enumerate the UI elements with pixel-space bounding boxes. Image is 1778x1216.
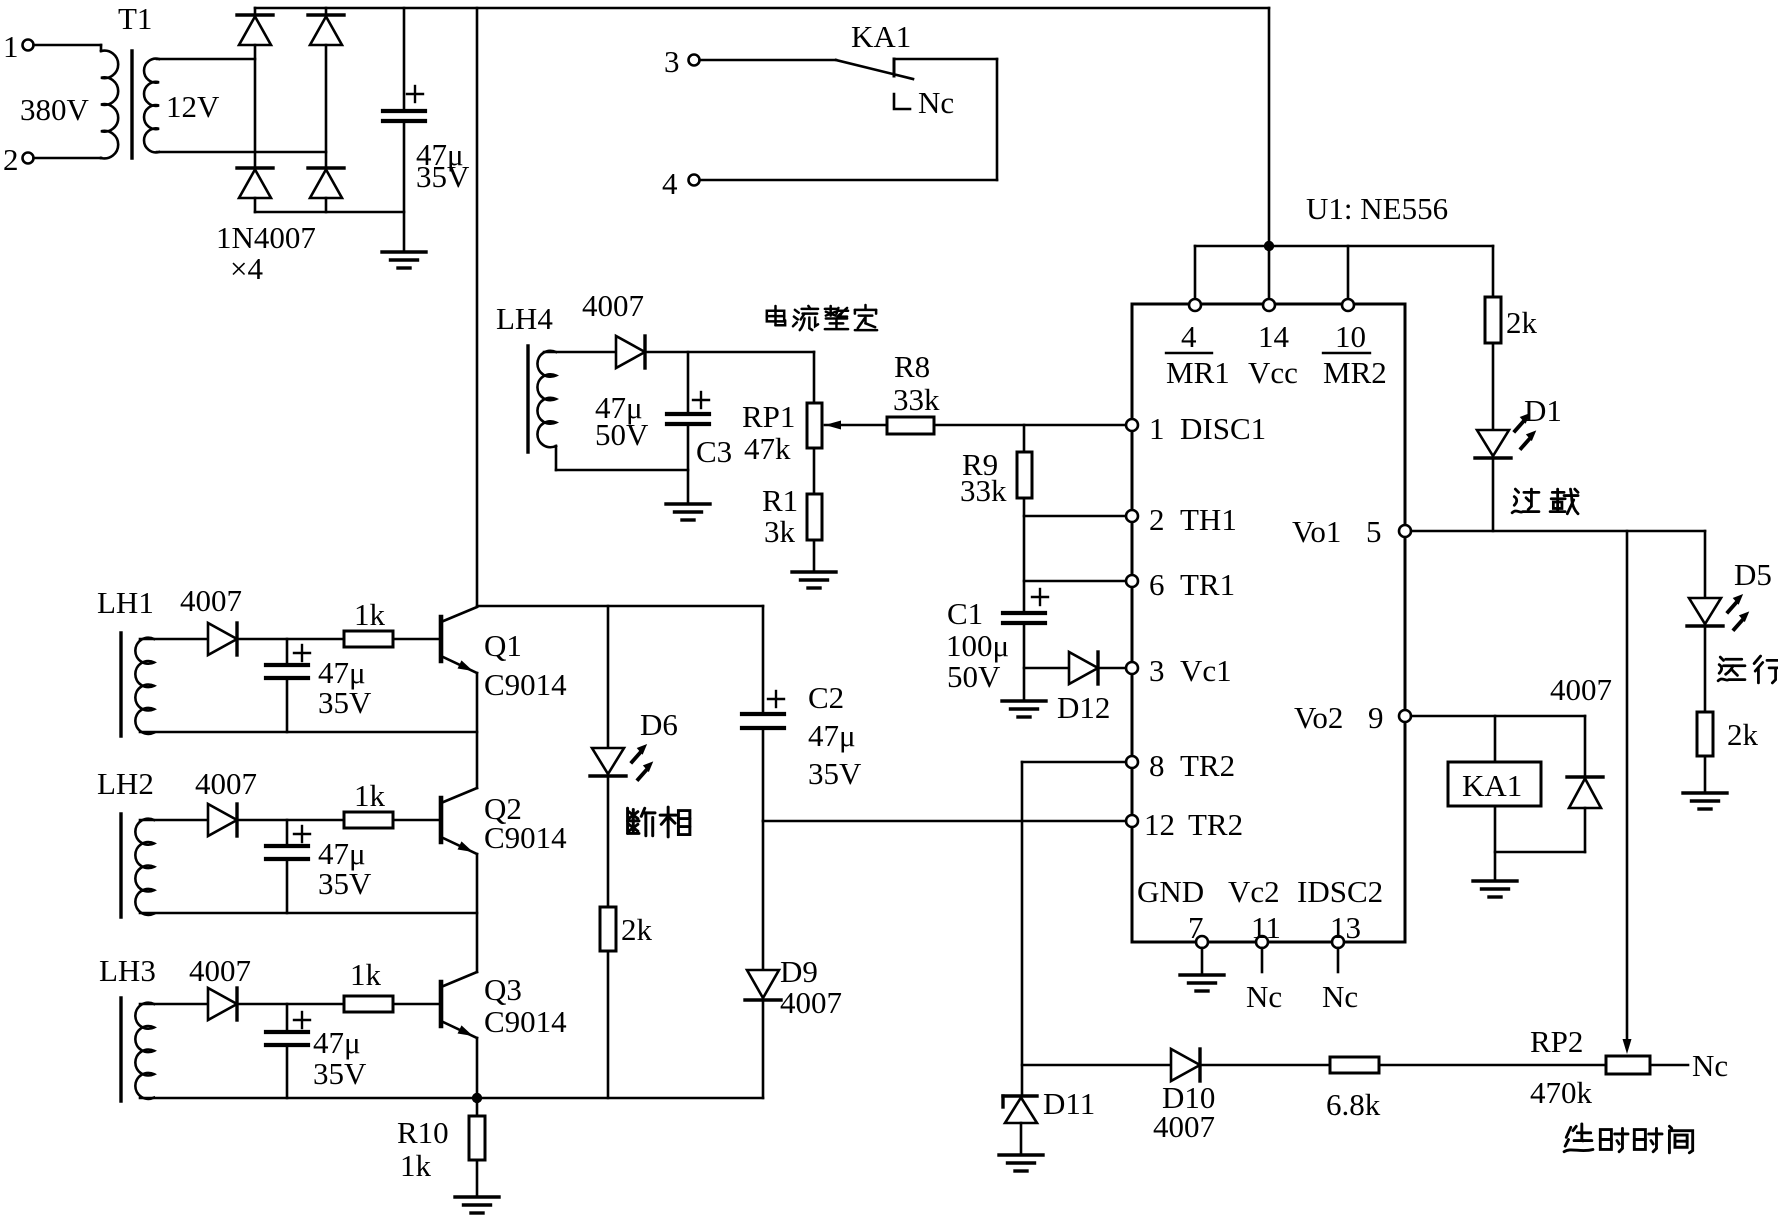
wire LH4 top to diode: [544, 351, 616, 354]
resistor 6.8k: [1326, 1057, 1381, 1122]
svg-text:2k: 2k: [1727, 717, 1759, 752]
wire R9 to C1: [1023, 498, 1026, 613]
wire RP1 wiper to R8: [825, 424, 887, 427]
svg-text:47μ: 47μ: [808, 718, 856, 753]
pin 4 MR1 stub: [1194, 246, 1197, 299]
svg-text:8: 8: [1149, 748, 1165, 783]
svg-text:6: 6: [1149, 567, 1165, 602]
svg-text:LH2: LH2: [97, 766, 154, 801]
diode D10 4007: [1153, 1049, 1215, 1144]
label 延时时间: [1564, 1124, 1693, 1153]
diode D9 4007: [745, 954, 842, 1020]
LED D6: [590, 707, 678, 779]
resistor R8 33k: [887, 349, 940, 434]
svg-text:Nc: Nc: [1692, 1048, 1728, 1083]
svg-text:9: 9: [1368, 700, 1384, 735]
wire 2k to D1: [1492, 343, 1495, 430]
svg-text:12V: 12V: [166, 89, 220, 124]
resistor 1k (LH3): [344, 957, 393, 1012]
wire contact to right: [894, 58, 997, 61]
transistor Q1 C9014: [441, 607, 567, 702]
label 380V: [20, 92, 90, 127]
svg-text:3: 3: [664, 44, 680, 79]
wire contact right vertical: [996, 59, 999, 180]
relay contact hook Nc: [894, 94, 910, 109]
current transformer LH3 winding: [135, 1003, 154, 1099]
wire bridge right column middle: [325, 45, 328, 168]
wire KA1 coil bottom: [1494, 806, 1497, 881]
svg-text:TR1: TR1: [1180, 567, 1235, 602]
wire to terminal 4: [700, 179, 998, 182]
svg-text:Q1: Q1: [484, 628, 522, 663]
wire RP2 to Nc: [1650, 1064, 1688, 1067]
wire collector rail: [477, 605, 763, 608]
pin 13 IDSC2 circle: [1297, 874, 1383, 948]
capacitor 47u 35V (LH1): [266, 639, 310, 732]
svg-text:C1: C1: [947, 596, 983, 631]
svg-text:R10: R10: [397, 1115, 449, 1150]
label 47u 35V: [416, 137, 470, 194]
resistor 1k (LH1): [344, 597, 393, 647]
svg-text:D11: D11: [1043, 1086, 1095, 1121]
svg-text:47k: 47k: [744, 431, 791, 466]
diode 4007 (LH2): [208, 804, 237, 836]
wire D9 to bottom rail: [762, 1000, 765, 1098]
resistor 2k (D1): [1485, 297, 1538, 343]
wire D10 to 6.8k: [1200, 1064, 1330, 1067]
label 47u 35V (LH2): [318, 836, 372, 901]
svg-text:470k: 470k: [1530, 1075, 1593, 1110]
pin 4 circle: [1189, 299, 1201, 311]
diode 4007 (KA1 flyback): [1550, 672, 1612, 852]
svg-text:RP2: RP2: [1530, 1024, 1583, 1059]
wire D11 to ground: [1020, 1123, 1023, 1155]
wire pin 8 branch: [1022, 761, 1126, 764]
wire 1k to Q3 base: [393, 1003, 439, 1006]
wire delay rail left: [1022, 1064, 1171, 1067]
capacitor C2 47u 35V: [742, 691, 784, 728]
label 12V: [166, 89, 220, 124]
svg-text:R8: R8: [894, 349, 930, 384]
wire RP2 wiper vertical: [1623, 531, 1632, 1054]
wire D12 to pin 3: [1098, 667, 1126, 670]
wire terminal1 to T1 primary: [34, 44, 102, 47]
diode D12: [1057, 652, 1110, 725]
wire bridge left column upper: [254, 8, 257, 15]
svg-text:Nc: Nc: [1322, 979, 1358, 1014]
svg-text:4007: 4007: [189, 953, 251, 988]
current transformer LH1 winding: [135, 638, 154, 734]
wire bottom rail: [477, 1097, 763, 1100]
wire pin 12 TR2 net: [763, 820, 1126, 823]
svg-text:100μ: 100μ: [946, 628, 1009, 663]
resistor 2k (D6): [600, 907, 653, 951]
resistor R9 33k: [960, 447, 1032, 508]
svg-text:D6: D6: [640, 707, 678, 742]
capacitor 47u 35V (filter): [383, 86, 425, 121]
wire Vcc rail to 2k: [1492, 246, 1495, 297]
label 47u 35V (LH1): [318, 655, 372, 720]
pin 12 circle: [1126, 807, 1243, 842]
wire LH1 diode to R: [237, 638, 344, 641]
label 4007 (LH4): [582, 288, 644, 323]
label Nc (contact): [918, 85, 954, 120]
relay contact fixed bar: [893, 59, 896, 76]
svg-text:1k: 1k: [354, 597, 386, 632]
svg-text:35V: 35V: [318, 866, 372, 901]
wire R10 top: [476, 1098, 479, 1116]
svg-text:2: 2: [1149, 502, 1165, 537]
pin 11 Vc2 circle: [1228, 874, 1281, 948]
wire top rail down to Vcc node: [1268, 8, 1271, 246]
label 47u 50V (C3): [595, 390, 649, 452]
capacitor 47u 35V (LH3): [266, 1004, 310, 1098]
ground (filter cap): [382, 252, 426, 268]
pin 9 circle Vo2: [1294, 700, 1411, 735]
svg-text:1k: 1k: [350, 957, 382, 992]
node Vcc junction: [1264, 241, 1274, 251]
transistor Q2 C9014: [441, 788, 567, 856]
wire LH3 bottom: [140, 1097, 477, 1100]
wire D12 branch: [1024, 667, 1069, 670]
zener D11: [1003, 1086, 1095, 1123]
svg-text:TH1: TH1: [1180, 502, 1237, 537]
relay coil KA1: [1448, 762, 1541, 806]
svg-text:47μ: 47μ: [313, 1025, 361, 1060]
resistor R1 3k: [762, 483, 822, 549]
capacitor 47u 35V (LH2): [266, 820, 310, 913]
diode bridge top-right (1N4007): [308, 15, 344, 45]
wire LH3 top: [140, 1003, 208, 1006]
ground (KA1): [1473, 881, 1517, 897]
svg-text:IDSC2: IDSC2: [1297, 874, 1383, 909]
wire bridge right column upper: [325, 8, 328, 15]
wire C2 branch to D9: [762, 821, 765, 970]
label 断相: [628, 807, 690, 837]
LED D1: [1475, 393, 1562, 458]
label LH3: [99, 953, 156, 988]
current transformer LH1 core: [119, 633, 122, 736]
svg-text:11: 11: [1251, 910, 1281, 945]
potentiometer RP2 470k: [1530, 1024, 1650, 1110]
pin 10 MR2 stub: [1347, 246, 1350, 299]
pin 5 circle Vo1: [1292, 514, 1411, 549]
ground (D11): [999, 1155, 1043, 1171]
pin 14 label Vcc: [1248, 319, 1298, 390]
label 电流整定: [767, 305, 877, 330]
svg-text:4: 4: [1181, 319, 1197, 354]
svg-text:380V: 380V: [20, 92, 90, 127]
node bottom junction: [472, 1093, 482, 1103]
svg-text:C9014: C9014: [484, 820, 567, 855]
wire C filter to ground: [403, 121, 406, 252]
svg-text:14: 14: [1258, 319, 1290, 354]
svg-text:Vo2: Vo2: [1294, 700, 1343, 735]
label LH2: [97, 766, 154, 801]
svg-text:Vc2: Vc2: [1228, 874, 1280, 909]
svg-text:4007: 4007: [582, 288, 644, 323]
svg-text:GND: GND: [1137, 874, 1204, 909]
wire C3 bottom: [687, 424, 690, 504]
svg-text:C9014: C9014: [484, 1004, 567, 1039]
svg-text:C3: C3: [696, 434, 732, 469]
label 4007 (LH3): [189, 953, 251, 988]
wire KA1 coil top: [1494, 716, 1497, 762]
current transformer LH2 winding: [135, 819, 154, 915]
diode 4007 (LH4): [616, 336, 645, 368]
svg-text:D9: D9: [780, 954, 818, 989]
potentiometer RP1 47k: [742, 399, 841, 466]
pin 4 label MR1: [1166, 319, 1230, 390]
wire LH4 bottom: [556, 446, 688, 470]
pin 14 circle: [1263, 299, 1275, 311]
svg-text:1: 1: [1149, 411, 1165, 446]
label 1N4007 x4: [216, 220, 316, 286]
terminal 1: [3, 29, 34, 64]
label KA1 (contact): [851, 19, 911, 54]
diode bridge bottom-left (1N4007): [237, 168, 273, 198]
svg-text:Vo1: Vo1: [1292, 514, 1341, 549]
wire 2k to ground (D5): [1704, 756, 1707, 793]
wire R8 to pin 1: [934, 424, 1126, 427]
svg-text:4007: 4007: [195, 766, 257, 801]
wire pin1 net to R9: [1023, 425, 1026, 452]
wire Q2 emitter to Q3 collector: [476, 854, 479, 972]
svg-text:LH1: LH1: [97, 585, 154, 620]
svg-text:C9014: C9014: [484, 667, 567, 702]
svg-text:4007: 4007: [1550, 672, 1612, 707]
svg-text:7: 7: [1188, 910, 1204, 945]
svg-text:×4: ×4: [230, 251, 263, 286]
pin 3 circle: [1126, 653, 1232, 688]
svg-text:KA1: KA1: [1462, 768, 1522, 803]
diode 4007 (LH1): [208, 623, 237, 655]
pin 14 Vcc stub: [1268, 246, 1271, 299]
wire R10 to ground: [476, 1160, 479, 1197]
wire RP1 top: [813, 352, 816, 403]
svg-text:2k: 2k: [1506, 305, 1538, 340]
svg-text:35V: 35V: [313, 1056, 367, 1091]
svg-text:T1: T1: [118, 1, 152, 36]
label 过载: [1512, 489, 1578, 514]
pin 7 GND circle: [1137, 874, 1208, 948]
current transformer LH3 core: [119, 998, 122, 1101]
transistor Q3 C9014: [441, 972, 567, 1040]
label 4007 (LH1): [180, 583, 242, 618]
ground (pin 7): [1180, 975, 1224, 991]
ground (R1): [792, 572, 836, 588]
svg-text:Nc: Nc: [1246, 979, 1282, 1014]
op-amp U1 NE556 body: [1132, 191, 1448, 942]
diode 4007 (LH3): [208, 988, 237, 1020]
wire D1 to Vo1 line: [1492, 458, 1495, 531]
wire D5 branch top: [1704, 531, 1707, 598]
svg-text:35V: 35V: [318, 685, 372, 720]
svg-text:4007: 4007: [180, 583, 242, 618]
label 运行: [1718, 656, 1778, 683]
svg-text:33k: 33k: [893, 382, 940, 417]
ground (C3): [666, 504, 710, 520]
diode bridge bottom-right (1N4007): [308, 168, 344, 198]
svg-text:MR2: MR2: [1323, 355, 1387, 390]
Vcc rail: [1195, 245, 1493, 248]
svg-text:1: 1: [3, 29, 19, 64]
pin 2 circle: [1126, 502, 1237, 537]
wire LH2 bottom: [140, 912, 477, 915]
wire 6.8k to RP2: [1379, 1064, 1606, 1067]
terminal 4: [662, 166, 700, 201]
diode bridge top-left (1N4007): [237, 15, 273, 45]
label LH1: [97, 585, 154, 620]
label Nc (RP2): [1692, 1048, 1728, 1083]
svg-text:DISC1: DISC1: [1180, 411, 1266, 446]
svg-text:KA1: KA1: [851, 19, 911, 54]
svg-text:RP1: RP1: [742, 399, 795, 434]
wire bridge left column middle: [254, 45, 257, 168]
svg-text:C2: C2: [808, 680, 844, 715]
svg-text:LH4: LH4: [496, 301, 553, 336]
wire R1 to ground: [813, 540, 816, 572]
label 47u 35V (LH3): [313, 1025, 367, 1091]
wire C3 top: [687, 352, 690, 414]
wire LH3 diode to R: [237, 1003, 344, 1006]
svg-text:35V: 35V: [808, 756, 862, 791]
svg-text:2k: 2k: [621, 912, 653, 947]
pin 10 circle: [1342, 299, 1354, 311]
label C3: [696, 434, 732, 469]
current transformer LH2 core: [119, 814, 122, 917]
pin 6 circle: [1126, 567, 1235, 602]
wire terminal2 to T1 primary: [34, 157, 102, 160]
wire D6 top: [607, 606, 610, 748]
wire C2 to TR2 net: [762, 728, 765, 821]
wire Q3 emitter to bottom node: [476, 1038, 479, 1098]
label 4007 (LH2): [195, 766, 257, 801]
wire bridge right column lower: [325, 198, 328, 212]
wire RP1 to R1: [813, 448, 816, 494]
current transformer LH4 winding: [537, 351, 556, 447]
svg-text:10: 10: [1335, 319, 1366, 354]
svg-text:50V: 50V: [595, 417, 649, 452]
wire Vo1 output: [1411, 530, 1705, 533]
capacitor C3 47u 50V: [667, 392, 709, 424]
svg-text:3k: 3k: [764, 514, 796, 549]
wire LH2 top: [140, 819, 208, 822]
ground (D5 branch): [1683, 793, 1727, 809]
terminal 2: [3, 142, 34, 177]
wire Q1 emitter to Q2 collector: [476, 673, 479, 788]
relay contact KA1 blade: [836, 60, 913, 79]
label C2 47u 35V: [808, 680, 862, 791]
ground (C1): [1002, 701, 1046, 717]
svg-text:2: 2: [3, 142, 19, 177]
wire 1k to Q2 base: [393, 819, 439, 822]
pin 7 stub to ground: [1201, 948, 1204, 975]
wire 1k to Q1 base: [393, 638, 439, 641]
wire KA1 diode bottom link: [1495, 851, 1585, 854]
svg-text:TR2: TR2: [1188, 807, 1243, 842]
svg-text:D12: D12: [1057, 690, 1110, 725]
svg-text:4007: 4007: [780, 985, 842, 1020]
current transformer LH4 core: [526, 346, 529, 452]
wire C1 to ground: [1023, 623, 1026, 701]
transformer T1 core: [130, 51, 133, 158]
ground (R10): [455, 1197, 499, 1213]
svg-text:LH3: LH3: [99, 953, 156, 988]
wire main vertical feed: [476, 8, 479, 606]
wire LH1 bottom: [140, 731, 477, 734]
svg-text:D1: D1: [1524, 393, 1562, 428]
resistor 2k (D5): [1697, 712, 1759, 756]
resistor 1k (LH2): [344, 778, 393, 828]
resistor R10 1k: [397, 1115, 485, 1183]
svg-text:Nc: Nc: [918, 85, 954, 120]
svg-text:12: 12: [1144, 807, 1175, 842]
svg-text:R1: R1: [762, 483, 798, 518]
label C1 100u 50V: [946, 596, 1009, 694]
wire Vo2 output: [1411, 715, 1585, 718]
svg-text:13: 13: [1330, 910, 1361, 945]
wire bridge left column lower: [254, 198, 257, 212]
svg-text:35V: 35V: [416, 159, 470, 194]
wire pin 2 branch: [1024, 515, 1126, 518]
svg-text:MR1: MR1: [1166, 355, 1230, 390]
svg-text:Vc1: Vc1: [1180, 653, 1232, 688]
wire terminal 3 to contact: [700, 59, 837, 62]
svg-text:50V: 50V: [947, 659, 1001, 694]
wire T1 secondary top to bridge: [157, 58, 255, 61]
transformer T1 secondary winding (12V): [144, 59, 159, 153]
svg-text:TR2: TR2: [1180, 748, 1235, 783]
pin 11 stub: [1246, 948, 1282, 1014]
svg-text:33k: 33k: [960, 473, 1007, 508]
svg-text:1k: 1k: [400, 1148, 432, 1183]
wire D5 to 2k: [1704, 626, 1707, 712]
transformer T1 label: [118, 1, 152, 36]
label LH4: [496, 301, 553, 336]
wire LH2 diode to R: [237, 819, 344, 822]
svg-text:U1: NE556: U1: NE556: [1306, 191, 1448, 226]
wire C2 top: [762, 606, 765, 714]
LED D5: [1687, 557, 1772, 629]
wire LH4 diode to RP1: [645, 351, 814, 354]
svg-text:1k: 1k: [354, 778, 386, 813]
svg-text:D5: D5: [1734, 557, 1772, 592]
wire LH1 top: [140, 638, 208, 641]
svg-text:4: 4: [662, 166, 678, 201]
pin 1 circle: [1126, 411, 1266, 446]
transformer T1 primary winding: [101, 45, 118, 158]
wire T1 secondary bottom to bridge: [157, 151, 326, 154]
svg-text:Q3: Q3: [484, 972, 522, 1007]
wire top rail to C filter: [403, 8, 406, 111]
pin 8 circle: [1126, 748, 1235, 783]
svg-text:3: 3: [1149, 653, 1165, 688]
capacitor C1 100u 50V: [1003, 589, 1048, 623]
svg-text:1N4007: 1N4007: [216, 220, 316, 255]
wire D6 to 2k: [607, 776, 610, 907]
svg-text:6.8k: 6.8k: [1326, 1087, 1381, 1122]
wire pin 6 branch: [1024, 580, 1126, 583]
wire 2k to bottom rail (D6): [607, 951, 610, 1098]
svg-text:Vcc: Vcc: [1248, 355, 1298, 390]
bridge bottom rail: [255, 211, 404, 214]
wire pin 8 vertical: [1021, 762, 1024, 1096]
terminal 3: [664, 44, 700, 79]
svg-text:4007: 4007: [1153, 1109, 1215, 1144]
top rail (+V): [255, 7, 1269, 10]
svg-text:5: 5: [1366, 514, 1382, 549]
